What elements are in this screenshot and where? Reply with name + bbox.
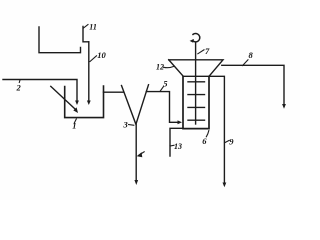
vessel 11 (open-top bracket, top-left): [39, 27, 89, 53]
svg-text:2: 2: [16, 83, 22, 93]
wire from valve 3 down: [135, 124, 137, 182]
arrow at end of wire 8: [282, 104, 286, 109]
svg-text:10: 10: [97, 50, 106, 60]
diagonal feed into vessel 1: [51, 86, 76, 109]
svg-text:1: 1: [72, 120, 76, 130]
valve 3 (V funnel): [122, 85, 149, 125]
arrow on wire 10: [87, 101, 91, 106]
label 3 leader: [129, 124, 134, 127]
wire 9 (bottom outlet line): [210, 76, 225, 184]
label 9 leader: [225, 140, 230, 142]
agitator shaft: [195, 43, 197, 124]
label 1 leader: [74, 119, 76, 123]
svg-text:5: 5: [163, 79, 168, 89]
label 5 leader: [160, 87, 163, 92]
svg-text:12: 12: [156, 63, 164, 72]
arrow on diagonal feed: [73, 107, 78, 113]
svg-text:11: 11: [89, 22, 97, 31]
svg-text:6: 6: [202, 136, 207, 146]
paddle 1: [188, 81, 205, 83]
svg-text:7: 7: [205, 46, 210, 56]
wire 8 (overflow line, top right): [222, 65, 284, 106]
paddle 4: [188, 119, 205, 121]
label 7 leader: [198, 50, 204, 54]
svg-text:3: 3: [123, 120, 129, 130]
paddle 3: [188, 106, 205, 108]
label 10 leader: [90, 56, 97, 62]
arrow into vessel 6: [178, 120, 183, 124]
pipe 13 (bottom left outlet of vessel 6): [170, 128, 183, 156]
paddle 2: [188, 94, 205, 96]
label 2 leader: [18, 80, 21, 83]
label 12 leader: [164, 66, 175, 67]
side branch arrow on valve 3 wire: [138, 152, 144, 156]
vessel 1 (open-top tank): [65, 86, 104, 118]
wire 2 (feed line into vessel 1): [3, 80, 77, 103]
svg-text:13: 13: [174, 142, 182, 151]
rotation symbol 7: [192, 33, 199, 41]
arrow at end of wire 9: [223, 183, 227, 188]
label 6 leader: [206, 131, 209, 137]
arrow on wire 2: [75, 101, 79, 106]
wire 10 (vertical drop into vessel 1): [88, 42, 90, 103]
svg-text:9: 9: [229, 137, 234, 147]
pipe vessel 1 to valve 3: [104, 91, 124, 93]
vessel 6 (stirred tank): [183, 76, 209, 128]
label 8 leader: [243, 60, 249, 66]
label 13 leader: [170, 144, 174, 147]
arrow at bottom of valve 3 wire: [134, 180, 138, 185]
svg-text:8: 8: [249, 50, 254, 60]
label 11 leader: [84, 25, 89, 29]
pipe 5 (valve 3 to vessel 6): [146, 92, 179, 123]
hopper 12 (funnel on vessel 6): [169, 60, 223, 77]
